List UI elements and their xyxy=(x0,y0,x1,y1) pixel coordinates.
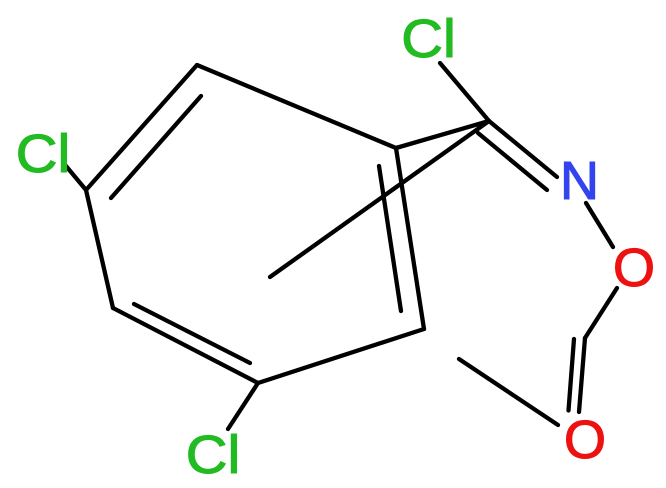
bond O-C (ester oxygen to carbonyl carbon) xyxy=(585,288,617,338)
bond C=N inner line xyxy=(478,133,547,190)
ring edge P1-P2 inner aromatic line xyxy=(111,96,201,198)
svg-text:Cl: Cl xyxy=(186,424,241,485)
ring edge P3-P4 inner aromatic line xyxy=(134,304,250,363)
bond Cl-ring (bottom chlorine bond) xyxy=(228,383,258,429)
ring edge P2-P3 (left edge) xyxy=(86,190,113,308)
bond C=N outer line xyxy=(489,121,557,177)
bond CH3-O (methyl to bottom oxygen) xyxy=(459,359,558,425)
bond N-O xyxy=(586,203,613,247)
svg-text:Cl: Cl xyxy=(16,123,71,184)
bond Cl-ring (left chlorine stub) xyxy=(66,166,86,190)
bond Cl-C (top chlorine to imine carbon) xyxy=(440,63,489,121)
svg-text:O: O xyxy=(613,238,655,298)
svg-text:N: N xyxy=(560,151,599,211)
ring edge P4-P5 (bottom-right edge) xyxy=(258,329,424,383)
ring edge P6-P1 (top edge) xyxy=(197,65,396,148)
bond C to ring interior (long diagonal) xyxy=(270,121,489,277)
svg-text:O: O xyxy=(564,410,606,470)
ring edge P3-P4 (bottom-left edge) xyxy=(113,308,258,383)
bond ring P6 to imine carbon xyxy=(396,121,489,148)
ring edge P1-P2 (top-left aromatic edge) xyxy=(86,65,197,190)
bond C=O inner line xyxy=(579,338,585,412)
bond C=O outer line xyxy=(569,339,575,411)
ring edge P5-P6 (right edge) xyxy=(396,148,424,329)
svg-text:Cl: Cl xyxy=(401,8,456,69)
ring edge P5-P6 inner aromatic line xyxy=(379,166,401,311)
